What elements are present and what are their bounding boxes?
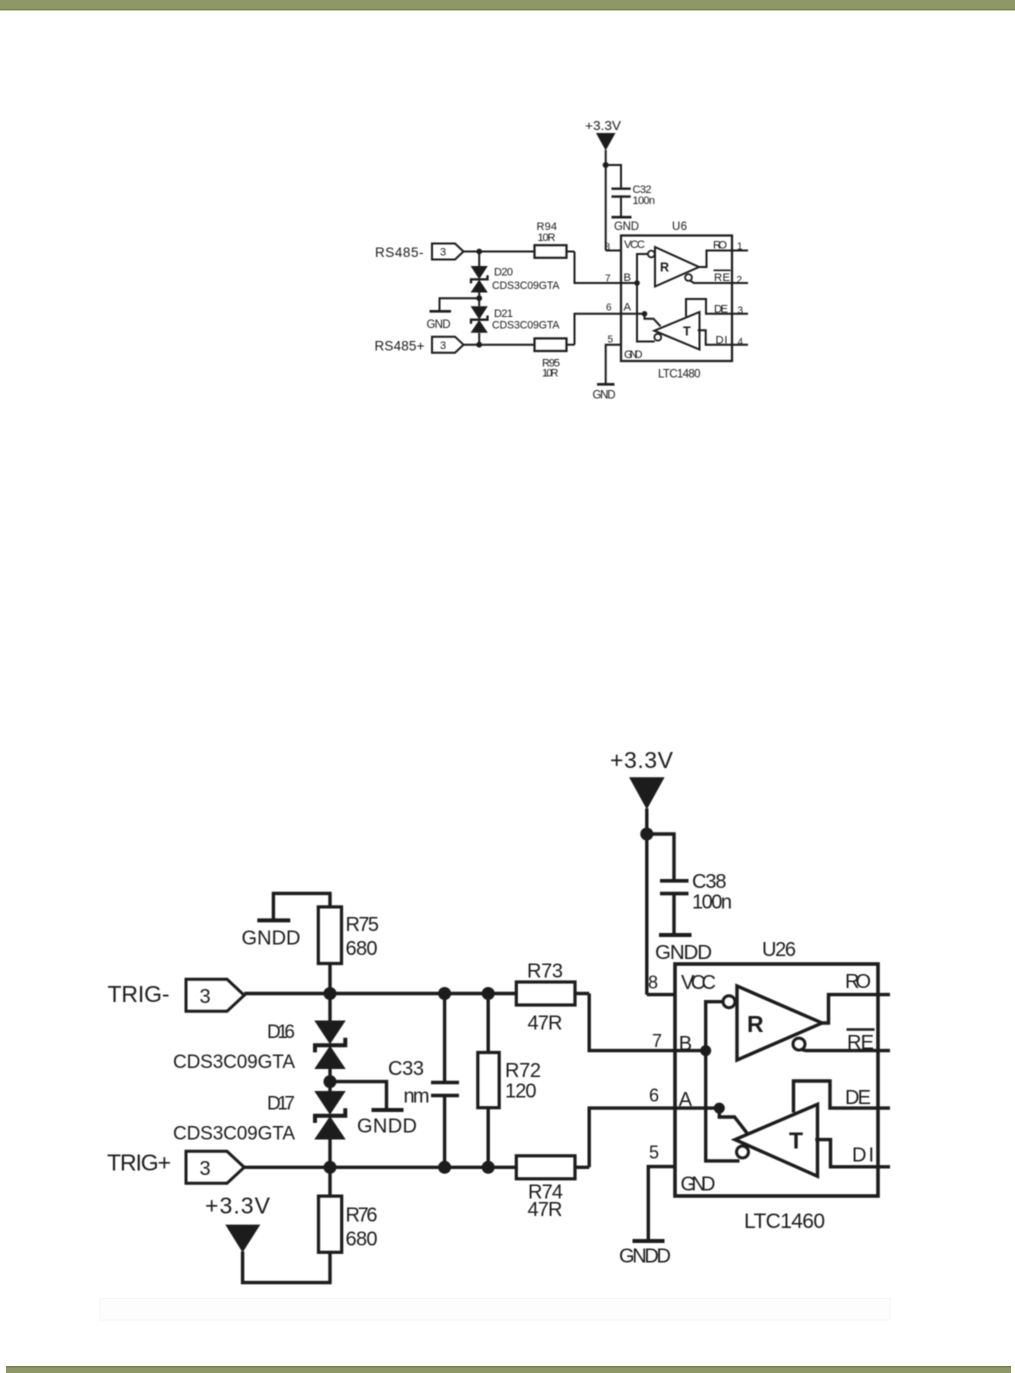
svg-text:R: R bbox=[747, 1011, 764, 1037]
wire B net internal (bottom IC) bbox=[700, 1002, 739, 1161]
wire RE output, pin 2 bbox=[690, 281, 748, 283]
svg-text:120: 120 bbox=[505, 1081, 537, 1103]
ground GND (under C32) bbox=[612, 217, 640, 233]
svg-text:3: 3 bbox=[738, 306, 744, 317]
resistor R73 bbox=[516, 961, 575, 1035]
svg-text:RS485+: RS485+ bbox=[375, 339, 425, 354]
svg-text:VCC: VCC bbox=[681, 972, 716, 994]
svg-text:6: 6 bbox=[606, 303, 612, 314]
wire R74 to pin 6 bbox=[575, 1166, 589, 1169]
wire DE bbox=[794, 1081, 891, 1113]
wire pin 6 (A) bbox=[575, 314, 645, 345]
svg-text:CDS3C09GTA: CDS3C09GTA bbox=[492, 280, 560, 292]
node TRIG- connector tag bbox=[108, 979, 245, 1011]
wire pin 7 (B) bbox=[589, 994, 706, 1051]
svg-text:GNDD: GNDD bbox=[242, 928, 301, 950]
wire TRIG- net bbox=[244, 992, 516, 995]
node junction D16/D17 bbox=[324, 1075, 337, 1088]
wire pin 5 (GND) bbox=[606, 345, 621, 385]
wire to mid ground bbox=[330, 1082, 387, 1110]
wire DI, pin 4 bbox=[698, 330, 748, 344]
svg-text:10R: 10R bbox=[538, 232, 556, 244]
power +3.3V (bottom circuit, top) bbox=[610, 747, 674, 995]
svg-text:100n: 100n bbox=[633, 195, 656, 207]
bottom olive bar bbox=[6, 1366, 1011, 1373]
wire to left ground bbox=[440, 298, 480, 311]
svg-text:7: 7 bbox=[652, 1031, 662, 1051]
svg-text:R: R bbox=[660, 261, 669, 275]
svg-text:U6: U6 bbox=[672, 221, 687, 233]
wire DI bbox=[815, 1140, 890, 1167]
wire VCC into pin 8 bbox=[606, 250, 621, 252]
power +3.3V (bottom left) bbox=[205, 1193, 330, 1283]
svg-text:47R: 47R bbox=[528, 1013, 563, 1035]
svg-text:GND: GND bbox=[614, 221, 639, 233]
svg-text:GNDD: GNDD bbox=[655, 941, 712, 964]
wire RS485+ net bbox=[464, 344, 535, 346]
wire R75 to TRIG- bbox=[328, 964, 331, 994]
svg-text:D17: D17 bbox=[267, 1094, 295, 1115]
ground GNDD (mid stub) bbox=[357, 1110, 417, 1138]
svg-text:D20: D20 bbox=[494, 267, 513, 279]
svg-text:T: T bbox=[789, 1128, 803, 1154]
svg-text:3: 3 bbox=[440, 247, 446, 259]
svg-text:47R: 47R bbox=[528, 1199, 563, 1221]
svg-text:D16: D16 bbox=[267, 1022, 295, 1043]
svg-text:7: 7 bbox=[605, 274, 611, 285]
wire pin 7 (B) bbox=[575, 252, 638, 284]
node junction D20/D21 bbox=[476, 295, 482, 301]
ground GNDD (pin 5) bbox=[619, 1241, 671, 1268]
wire branch to C38 bbox=[647, 834, 674, 881]
svg-text:TRIG+: TRIG+ bbox=[107, 1150, 171, 1176]
svg-text:CDS3C09GTA: CDS3C09GTA bbox=[492, 320, 560, 332]
svg-text:680: 680 bbox=[346, 1229, 378, 1251]
wire R73 to pin 7 bbox=[575, 992, 589, 995]
svg-text:680: 680 bbox=[346, 938, 378, 960]
driver buffer T (U26) bbox=[735, 1104, 818, 1176]
svg-text:R76: R76 bbox=[346, 1205, 378, 1227]
svg-text:C38: C38 bbox=[692, 871, 727, 893]
svg-text:A: A bbox=[624, 302, 632, 314]
svg-text:4: 4 bbox=[738, 337, 744, 348]
IC U6 box bbox=[621, 221, 732, 361]
resistor R95 bbox=[535, 338, 567, 379]
svg-text:GND: GND bbox=[427, 319, 451, 331]
svg-text:5: 5 bbox=[608, 335, 614, 346]
node junctions TRIG+ bbox=[324, 1161, 337, 1174]
ground GND (pin 5) bbox=[593, 384, 616, 401]
svg-text:RO: RO bbox=[845, 971, 871, 993]
resistor R94 bbox=[535, 221, 567, 258]
wire C38 to ground bbox=[672, 894, 675, 935]
receiver buffer R (U6) bbox=[648, 247, 699, 287]
ground GNDD (R75 pull) bbox=[242, 893, 331, 949]
ground GNDD (under C38) bbox=[655, 935, 712, 964]
svg-text:R72: R72 bbox=[505, 1060, 541, 1082]
resistor R76 bbox=[319, 1167, 378, 1252]
diode D20 (TVS) bbox=[471, 252, 561, 299]
svg-text:GND: GND bbox=[624, 349, 643, 361]
svg-text:1: 1 bbox=[737, 242, 743, 253]
node VCC junction (top) bbox=[603, 162, 609, 168]
diode D16 (TVS) bbox=[173, 994, 346, 1082]
receiver buffer R (U26) bbox=[723, 986, 822, 1060]
node RS485- connector tag bbox=[375, 244, 464, 261]
svg-text:LTC1460: LTC1460 bbox=[744, 1210, 825, 1233]
svg-text:R73: R73 bbox=[527, 961, 563, 983]
wire RO output bbox=[822, 995, 890, 1023]
driver buffer T (U6) bbox=[654, 312, 699, 350]
node junction RS485+ bbox=[476, 342, 482, 348]
svg-text:DI: DI bbox=[852, 1145, 874, 1167]
node TRIG+ connector tag bbox=[107, 1150, 244, 1184]
svg-text:T: T bbox=[683, 325, 691, 339]
wire A net internal (bottom IC) bbox=[714, 1103, 748, 1134]
svg-text:CDS3C09GTA: CDS3C09GTA bbox=[173, 1052, 295, 1073]
svg-text:TRIG-: TRIG- bbox=[108, 981, 170, 1007]
svg-text:C33: C33 bbox=[388, 1058, 424, 1080]
wire branch to C32 bbox=[606, 165, 621, 189]
diode D21 (TVS) bbox=[471, 298, 561, 345]
svg-text:U26: U26 bbox=[762, 939, 796, 961]
resistor R74 bbox=[516, 1156, 575, 1221]
svg-text:5: 5 bbox=[649, 1143, 659, 1163]
svg-text:+3.3V: +3.3V bbox=[610, 747, 674, 773]
svg-text:VCC: VCC bbox=[624, 239, 645, 251]
node junction RS485- bbox=[476, 249, 482, 255]
wire pin 5 (GND) bbox=[648, 1167, 675, 1241]
wire R95 to pin 6 bbox=[567, 344, 575, 346]
svg-text:8: 8 bbox=[605, 242, 611, 253]
svg-text:GND: GND bbox=[593, 390, 616, 402]
resistor R72 bbox=[478, 994, 541, 1168]
svg-text:D21: D21 bbox=[494, 308, 513, 320]
diode D17 (TVS) bbox=[173, 1082, 346, 1168]
wire pin 6 (A) bbox=[589, 1108, 719, 1167]
wire RE output bbox=[802, 1050, 890, 1051]
svg-text:CDS3C09GTA: CDS3C09GTA bbox=[173, 1124, 295, 1145]
wire RS485- net bbox=[464, 251, 535, 253]
capacitor C32 bbox=[612, 184, 656, 207]
resistor R75 bbox=[318, 907, 379, 964]
svg-text:+3.3V: +3.3V bbox=[585, 118, 621, 133]
svg-text:8: 8 bbox=[648, 973, 658, 993]
svg-text:3: 3 bbox=[200, 986, 211, 1008]
svg-text:10R: 10R bbox=[542, 368, 559, 380]
wire TRIG+ net bbox=[244, 1166, 516, 1169]
wire C32 to ground bbox=[620, 197, 622, 218]
node junctions TRIG- bbox=[324, 987, 337, 1000]
svg-text:100n: 100n bbox=[692, 892, 732, 914]
svg-text:GNDD: GNDD bbox=[619, 1246, 671, 1268]
svg-text:GNDD: GNDD bbox=[357, 1116, 417, 1138]
node RS485+ connector tag bbox=[375, 337, 464, 354]
svg-text:3: 3 bbox=[200, 1158, 211, 1180]
svg-text:RS485-: RS485- bbox=[375, 245, 424, 260]
svg-text:GND: GND bbox=[681, 1174, 716, 1196]
wire R94 to pin 7 bbox=[567, 251, 575, 253]
wire VCC into pin 8 bbox=[647, 993, 675, 996]
ground GND (left stub) bbox=[427, 311, 452, 331]
capacitor C33 bbox=[388, 994, 459, 1168]
wire DE, pin 3 bbox=[686, 299, 748, 317]
IC U26 box bbox=[675, 939, 878, 1196]
svg-text:+3.3V: +3.3V bbox=[205, 1193, 271, 1219]
node VCC junction (bottom) bbox=[640, 828, 653, 841]
svg-text:nm: nm bbox=[404, 1086, 430, 1108]
svg-text:3: 3 bbox=[440, 340, 446, 352]
capacitor C38 bbox=[660, 871, 732, 914]
svg-text:2: 2 bbox=[737, 275, 743, 286]
svg-text:R75: R75 bbox=[346, 914, 380, 936]
wire RO output, pin 1 bbox=[699, 251, 748, 268]
faint footer box bbox=[100, 1299, 890, 1321]
svg-text:DE: DE bbox=[845, 1087, 871, 1109]
svg-text:6: 6 bbox=[649, 1086, 659, 1106]
svg-text:LTC1480: LTC1480 bbox=[658, 369, 701, 381]
power +3.3V (top circuit) bbox=[585, 118, 621, 251]
wire A net internal bbox=[642, 311, 661, 326]
top olive header bar bbox=[0, 0, 1015, 9]
wire B net internal bbox=[634, 254, 655, 342]
